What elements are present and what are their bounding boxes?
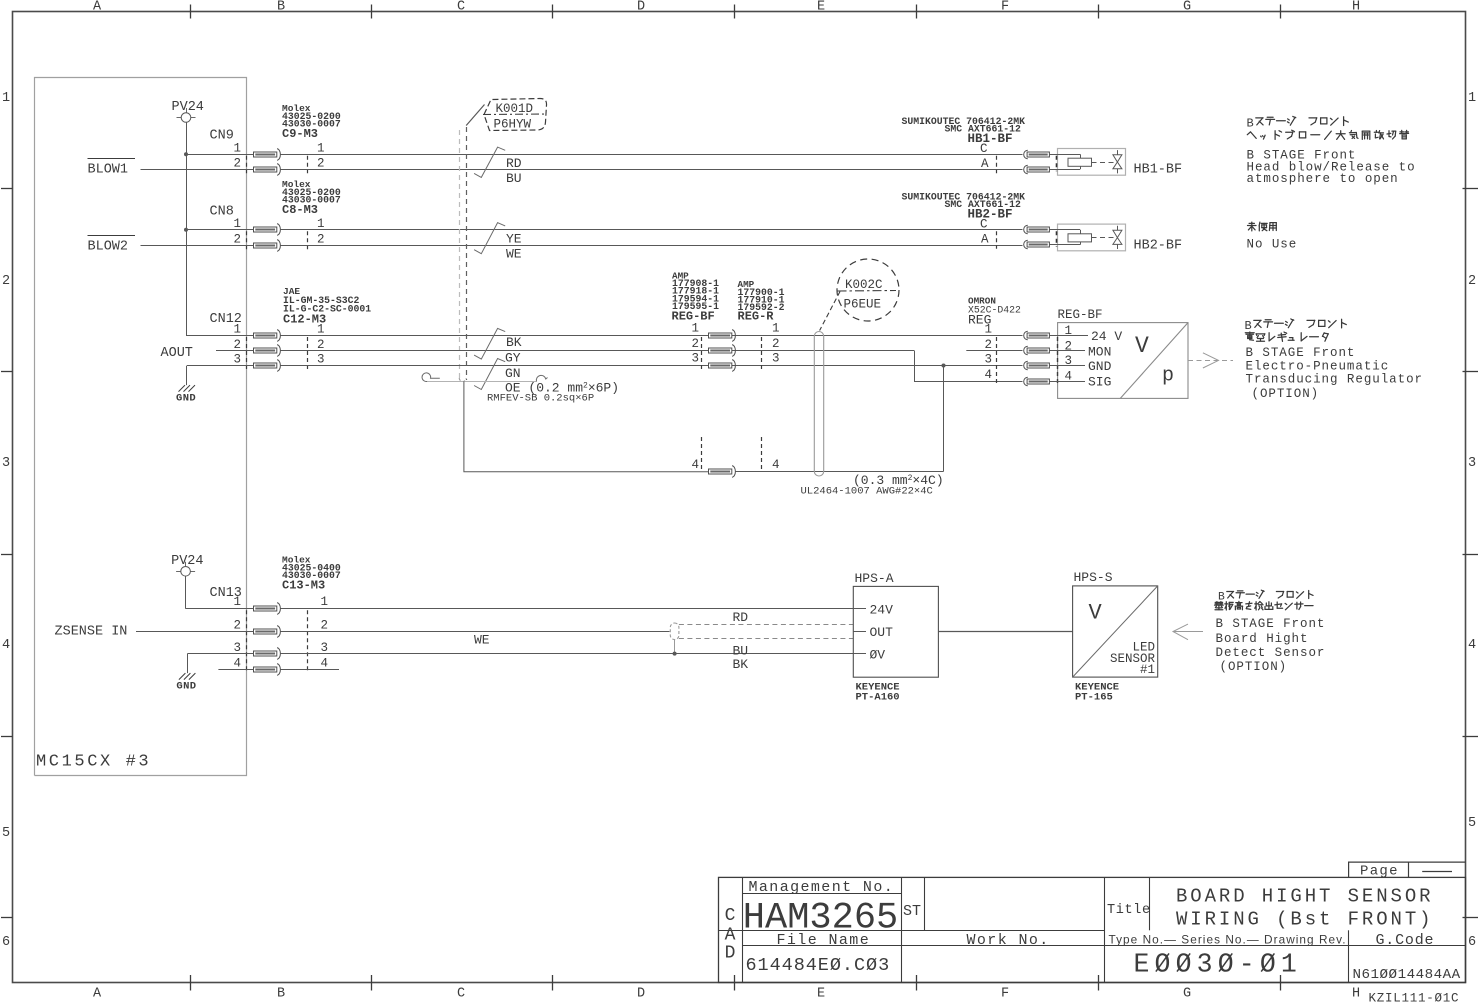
svg-text:RMFEV-SB 0.2sq×6P: RMFEV-SB 0.2sq×6P — [487, 393, 594, 405]
svg-text:HB2-BF: HB2-BF — [968, 208, 1013, 222]
page box — [1349, 862, 1466, 879]
svg-text:Management No.: Management No. — [749, 879, 895, 896]
label KEYENCE PT-A160 — [856, 682, 900, 704]
svg-text:P6EUE: P6EUE — [844, 298, 882, 312]
svg-text:KZIL111-Ø1C: KZIL111-Ø1C — [1369, 992, 1460, 1003]
wire ZSENSE IN to CN13-2 — [136, 631, 254, 633]
svg-text:F: F — [1001, 0, 1009, 15]
ground GND (CN13-3) — [176, 654, 196, 693]
svg-text:(OPTION): (OPTION) — [1220, 660, 1288, 674]
solenoid valve HB2-BF texts — [902, 192, 1026, 222]
cable clamp hook left — [422, 373, 440, 382]
svg-text:V: V — [1089, 601, 1103, 626]
svg-text:REG-BF: REG-BF — [1058, 308, 1103, 322]
svg-text:4: 4 — [2, 638, 10, 653]
svg-text:YE: YE — [506, 232, 522, 247]
harness lasso K001D (dashed bundle lines) — [459, 127, 466, 382]
wire PV24 feeder vertical — [186, 122, 188, 335]
connector CN9 (Molex C9-M3) — [210, 103, 341, 173]
svg-text:BOARD HIGHT SENSOR: BOARD HIGHT SENSOR — [1176, 886, 1433, 908]
wire color marker GN/OE — [474, 359, 505, 390]
wire color marker YE/WE — [474, 223, 505, 254]
svg-text:atmosphere to open: atmosphere to open — [1247, 172, 1399, 186]
svg-text:B: B — [1247, 117, 1254, 131]
PV24 supply (bottom) — [171, 554, 203, 581]
solenoid coil HB1-BF — [1049, 154, 1092, 169]
wire REG4 shield run — [736, 471, 944, 473]
svg-text:614484EØ.CØ3: 614484EØ.CØ3 — [746, 955, 891, 976]
svg-text:BK: BK — [506, 335, 522, 350]
wire BLOW1 to CN9-2 — [141, 169, 254, 171]
svg-text:3: 3 — [984, 353, 992, 367]
svg-text:2: 2 — [233, 619, 241, 633]
svg-text:A: A — [93, 0, 102, 15]
svg-text:3: 3 — [233, 353, 241, 367]
wire PV24 to CN13-1 — [185, 576, 187, 609]
svg-text:1: 1 — [233, 595, 241, 609]
svg-text:K002C: K002C — [845, 278, 883, 292]
svg-text:RD: RD — [733, 610, 749, 625]
wire CN13-4 stub left — [218, 669, 253, 671]
svg-text:1: 1 — [691, 322, 699, 336]
svg-text:2: 2 — [233, 157, 241, 171]
svg-text:A: A — [725, 926, 736, 946]
svg-text:WE: WE — [474, 633, 490, 648]
node CN9-1 junction — [184, 152, 188, 156]
wire BLOW2 to CN8-2 — [141, 245, 254, 247]
svg-text:D: D — [725, 944, 736, 964]
valve pilot dashes HB2-BF — [1092, 237, 1115, 239]
contact REG 4 — [709, 466, 736, 477]
contact HB2-BF C — [1024, 225, 1050, 234]
svg-text:C12-M3: C12-M3 — [283, 313, 326, 327]
svg-text:CN9: CN9 — [210, 129, 234, 144]
shielded cable end oval (dashed) — [670, 623, 679, 640]
svg-text:B: B — [277, 987, 285, 1002]
svg-text:Electro-Pneumatic: Electro-Pneumatic — [1246, 360, 1390, 374]
svg-text:H: H — [1352, 987, 1360, 1002]
svg-text:OUT: OUT — [870, 625, 894, 640]
svg-text:MON: MON — [1088, 345, 1111, 360]
note text No Use — [1247, 222, 1298, 251]
svg-text:WIRING (Bst FRONT): WIRING (Bst FRONT) — [1176, 909, 1433, 931]
svg-text:ST: ST — [903, 903, 921, 920]
flag K001D / P6HYW — [483, 99, 547, 132]
wire CN13-3 (BK 0V) to HPS-A — [281, 653, 854, 655]
valve body HB1-BF — [1057, 149, 1126, 176]
pin numbers REG-R side — [762, 322, 780, 473]
wire color marker BK/GY — [474, 328, 505, 359]
svg-text:2: 2 — [317, 157, 325, 171]
svg-text:Board Hight: Board Hight — [1216, 632, 1309, 646]
wire shield drain to REG-BF 4 — [464, 381, 709, 472]
wire CN13-2 (WE) to cable end — [281, 631, 670, 633]
svg-text:WE: WE — [506, 247, 522, 262]
svg-text:Title: Title — [1107, 903, 1151, 918]
svg-text:A: A — [981, 157, 989, 171]
svg-text:4: 4 — [1468, 638, 1476, 653]
amplifier HPS-A box — [853, 571, 938, 677]
contact REG-1 — [1024, 331, 1050, 340]
svg-text:1: 1 — [984, 323, 992, 337]
svg-text:V: V — [1135, 333, 1149, 359]
title block — [719, 877, 1466, 983]
contact CN9-1 — [254, 149, 281, 160]
svg-text:BLOW1: BLOW1 — [88, 163, 129, 178]
contact REG 1 — [709, 330, 736, 341]
svg-text:F: F — [1001, 987, 1009, 1002]
svg-text:Transducing Regulator: Transducing Regulator — [1246, 373, 1423, 387]
svg-text:4: 4 — [772, 458, 780, 472]
svg-text:4: 4 — [984, 368, 992, 382]
svg-text:6: 6 — [2, 935, 10, 950]
svg-text:1: 1 — [317, 142, 325, 156]
leader K002C to cable — [820, 292, 840, 331]
svg-text:4: 4 — [691, 458, 699, 472]
light input arrow — [1173, 624, 1203, 640]
ground GND (CN12-3) — [176, 366, 196, 405]
svg-text:G: G — [1183, 987, 1191, 1002]
wire shield drop to 0V — [674, 640, 676, 654]
svg-text:5: 5 — [2, 826, 10, 841]
contact CN13-1 — [254, 603, 281, 614]
contact HB1-BF A — [1024, 165, 1050, 174]
cable jacket oval (0.3mm2x4C) — [814, 332, 823, 477]
svg-text:AOUT: AOUT — [161, 346, 193, 361]
svg-text:C13-M3: C13-M3 — [282, 579, 325, 593]
svg-text:1: 1 — [233, 217, 241, 231]
svg-text:GND: GND — [176, 393, 196, 405]
contact REG 3 — [709, 360, 736, 371]
svg-text:2: 2 — [1065, 340, 1073, 354]
leader to K001D flag — [466, 105, 484, 126]
valve body HB2-BF — [1057, 224, 1126, 251]
svg-text:K001D: K001D — [496, 102, 534, 116]
contact CN12-1 — [254, 330, 281, 341]
contact HB1-BF C — [1024, 150, 1050, 159]
solenoid valve HB1-BF texts — [902, 116, 1026, 146]
net label BLOW2 — [88, 236, 136, 255]
svg-text:BLOW2: BLOW2 — [88, 240, 129, 255]
harness flag K002C / P6EUE (dashed circle) — [837, 259, 899, 321]
svg-text:HB2-BF: HB2-BF — [1134, 238, 1183, 253]
svg-text:MC15CX #3: MC15CX #3 — [36, 753, 151, 772]
svg-text:HPS-A: HPS-A — [855, 571, 894, 586]
node CN8-1 junction — [184, 228, 188, 232]
wire CN8-1 to HB2 C — [186, 229, 254, 231]
svg-text:3: 3 — [772, 352, 780, 366]
svg-text:Type No.— Series No.— Drawing: Type No.— Series No.— Drawing Rev. — [1109, 933, 1347, 947]
svg-text:D: D — [637, 987, 645, 1002]
dashed pin separator HB1-BF — [996, 156, 998, 174]
svg-text:24 V: 24 V — [1091, 329, 1122, 344]
contact REG-2 — [1024, 346, 1050, 355]
svg-text:HB1-BF: HB1-BF — [968, 132, 1013, 146]
svg-text:2: 2 — [233, 338, 241, 352]
contact CN13-4 — [254, 664, 281, 675]
svg-text:ZSENSE IN: ZSENSE IN — [55, 625, 128, 640]
wire AOUT to CN12-2 — [216, 350, 254, 352]
svg-text:H: H — [1352, 0, 1360, 15]
svg-text:PT-A160: PT-A160 — [856, 692, 900, 704]
svg-text:2: 2 — [233, 233, 241, 247]
svg-text:A: A — [93, 987, 102, 1002]
regulator REG-BF box — [1049, 308, 1188, 398]
contact REG 2 — [709, 345, 736, 356]
svg-text:GND: GND — [1088, 359, 1112, 374]
wire CN12-3 to GND riser — [187, 365, 254, 367]
contact CN8-2 — [254, 240, 281, 251]
svg-text:B: B — [277, 0, 285, 15]
wire BU dashed to HPS-A — [679, 638, 853, 640]
contact CN12-3 — [254, 360, 281, 371]
svg-text:E: E — [817, 0, 825, 15]
wire CN9-1 to HB1 C — [186, 154, 254, 156]
svg-text:C: C — [457, 987, 465, 1002]
svg-text:1: 1 — [321, 595, 329, 609]
svg-text:PT-165: PT-165 — [1075, 692, 1113, 704]
svg-text:C: C — [980, 218, 988, 232]
svg-text:Detect Sensor: Detect Sensor — [1216, 646, 1326, 660]
svg-text:1: 1 — [772, 322, 780, 336]
svg-text:2: 2 — [317, 338, 325, 352]
svg-text:C8-M3: C8-M3 — [282, 203, 318, 217]
pneumatic output arrow — [1188, 353, 1233, 368]
svg-text:C: C — [725, 906, 736, 926]
svg-text:No Use: No Use — [1247, 238, 1298, 252]
svg-text:N61ØØ14484AA: N61ØØ14484AA — [1353, 967, 1461, 983]
connector pair REG-BF / REG-R texts — [672, 271, 785, 324]
contact REG-4 — [1024, 377, 1050, 386]
svg-text:HB1-BF: HB1-BF — [1134, 163, 1183, 178]
svg-text:C9-M3: C9-M3 — [282, 127, 318, 141]
connector CN12 (JAE C12-M3) — [210, 286, 372, 370]
dashed pin separator HB2-BF — [996, 231, 998, 249]
net label BLOW1 — [88, 159, 136, 178]
wire CN13-3 to GND riser — [187, 653, 253, 655]
svg-text:24V: 24V — [870, 603, 894, 618]
svg-text:4: 4 — [321, 657, 329, 671]
wire CN12-3 (GN) to REG GND — [281, 365, 1023, 367]
wire GY step down to SIG — [915, 351, 1023, 382]
svg-text:1: 1 — [233, 142, 241, 156]
svg-text:REG-R: REG-R — [738, 310, 775, 324]
contact HB2-BF A — [1024, 240, 1050, 249]
svg-text:E: E — [817, 987, 825, 1002]
svg-text:GND: GND — [176, 681, 196, 693]
wire CN12-2 (GY) to step — [281, 350, 915, 352]
svg-text:BU: BU — [506, 171, 522, 186]
svg-text:RD: RD — [506, 156, 522, 171]
svg-text:C: C — [980, 142, 988, 156]
wire RD dashed to HPS-A — [679, 624, 853, 626]
svg-text:GY: GY — [505, 351, 521, 366]
svg-text:P6HYW: P6HYW — [494, 118, 532, 132]
svg-text:6: 6 — [1468, 935, 1476, 950]
svg-text:1: 1 — [1468, 91, 1476, 106]
connector CN13 (Molex C13-M3) — [210, 555, 341, 674]
svg-text:Work No.: Work No. — [967, 932, 1050, 949]
svg-text:2: 2 — [1468, 274, 1476, 289]
wire color marker RD/BU — [474, 147, 505, 177]
contact CN13-3 — [254, 648, 281, 659]
node GND junction — [942, 364, 946, 368]
contact REG-3 — [1024, 361, 1050, 370]
svg-text:2: 2 — [984, 338, 992, 352]
svg-text:3: 3 — [321, 641, 329, 655]
svg-text:1: 1 — [317, 217, 325, 231]
contact CN9-2 — [254, 164, 281, 175]
svg-text:Page: Page — [1360, 864, 1399, 880]
check valve symbol HB1-BF — [1109, 150, 1122, 173]
svg-text:2: 2 — [317, 233, 325, 247]
node shield/0V junction — [673, 652, 677, 656]
svg-text:1: 1 — [233, 323, 241, 337]
label KEYENCE PT-165 — [1075, 682, 1119, 704]
svg-text:CN8: CN8 — [210, 205, 234, 220]
svg-text:SIG: SIG — [1088, 375, 1111, 390]
connector CN8 (Molex C8-M3) — [210, 179, 341, 250]
svg-text:3: 3 — [233, 641, 241, 655]
pin numbers REG-BF side — [691, 322, 701, 473]
cable clamp hook right — [536, 375, 547, 381]
svg-text:File Name: File Name — [777, 932, 871, 949]
note text Electro-Pneumatic Regulator (Japanese) — [1245, 319, 1347, 342]
wire CN13-4 stub right — [281, 669, 340, 671]
wire MON stub — [966, 350, 1022, 352]
svg-text:EØØ3Ø-Ø1: EØØ3Ø-Ø1 — [1134, 950, 1302, 980]
svg-text:B STAGE Front: B STAGE Front — [1216, 617, 1326, 631]
svg-text:ØV: ØV — [870, 648, 886, 663]
sensor HPS-S box — [1073, 570, 1158, 677]
PV24 supply (top) — [172, 100, 204, 127]
wire CN13-1 to HPS-A 24V — [186, 608, 254, 610]
svg-text:C: C — [457, 0, 465, 15]
svg-text:3: 3 — [691, 352, 699, 366]
svg-text:UL2464-1007 AWG#22×4C: UL2464-1007 AWG#22×4C — [801, 486, 933, 498]
note text Board Hight Detect Sensor (English) — [1216, 617, 1326, 674]
svg-text:2: 2 — [2, 274, 10, 289]
svg-text:2: 2 — [691, 337, 699, 351]
svg-text:GN: GN — [505, 366, 521, 381]
svg-text:D: D — [637, 0, 645, 15]
svg-text:3: 3 — [317, 353, 325, 367]
note text Electro-Pneumatic Regulator (English) — [1246, 346, 1423, 401]
svg-text:5: 5 — [1468, 816, 1476, 831]
svg-text:B STAGE Front: B STAGE Front — [1246, 346, 1356, 360]
svg-text:HPS-S: HPS-S — [1074, 570, 1113, 585]
note text B STAGE Front head blow (Japanese) — [1247, 116, 1409, 139]
wire PV24 to CN12-1 and on to REG 24V — [186, 335, 254, 337]
svg-text:G: G — [1183, 0, 1191, 15]
svg-text:#1: #1 — [1140, 663, 1155, 677]
connector REG (OMRON X52C-D422) — [968, 296, 1021, 386]
MC15CX #3 board outline — [35, 78, 247, 776]
svg-text:2: 2 — [321, 619, 329, 633]
wire HPS-A OUT to HPS-S — [938, 631, 1072, 633]
svg-text:4: 4 — [233, 657, 241, 671]
check valve symbol HB2-BF — [1109, 226, 1122, 249]
note text B STAGE Front head blow (English) — [1247, 149, 1416, 187]
note text Board Hight Detect Sensor (Japanese) — [1215, 590, 1314, 610]
svg-text:(OPTION): (OPTION) — [1252, 387, 1320, 401]
svg-text:2: 2 — [772, 337, 780, 351]
valve pilot dashes HB1-BF — [1092, 162, 1115, 164]
svg-text:A: A — [981, 233, 989, 247]
svg-text:3: 3 — [2, 456, 10, 471]
contact CN13-2 — [254, 626, 281, 637]
contact CN12-2 — [254, 345, 281, 356]
wire shield riser to GND junction — [943, 366, 945, 472]
svg-text:p: p — [1162, 365, 1174, 388]
svg-text:3: 3 — [1468, 456, 1476, 471]
svg-text:1: 1 — [2, 91, 10, 106]
svg-text:G.Code: G.Code — [1376, 932, 1435, 949]
contact CN8-1 — [254, 224, 281, 235]
shield drain wire OE (gray) — [428, 381, 538, 383]
svg-text:BK: BK — [733, 657, 749, 672]
svg-text:B: B — [1245, 319, 1252, 333]
solenoid coil HB2-BF — [1049, 230, 1092, 245]
